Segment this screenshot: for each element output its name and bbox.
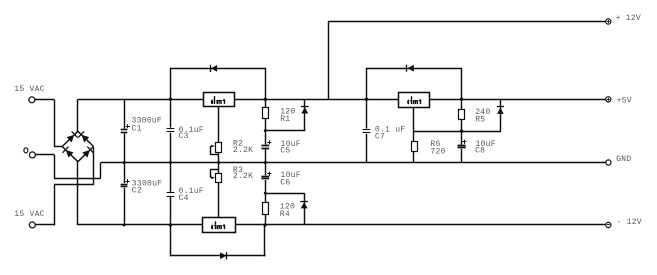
svg-text:C8: C8	[475, 147, 485, 156]
svg-text:C6: C6	[280, 179, 290, 188]
capacitor C1	[120, 124, 130, 133]
wire C6 column	[265, 163, 267, 194]
junction R1-C5-D1	[264, 129, 267, 132]
wire U2 bypass loop	[170, 225, 266, 256]
regulator U3 (LM317) box	[399, 93, 430, 108]
resistor R3 labels	[233, 166, 253, 181]
terminal +12V output	[606, 19, 611, 24]
wire GND rail	[101, 162, 606, 164]
junction positive rail / R5 / bypass	[460, 98, 463, 101]
wire U2 adjust column	[218, 163, 220, 218]
wire C3 column	[170, 99, 172, 162]
resistor R1 body	[263, 108, 269, 119]
bridge edge top-left	[62, 131, 78, 146]
wire C4 column	[170, 163, 172, 226]
resistor R2 labels	[233, 139, 253, 155]
junction negative rail / C4 / bypass	[169, 223, 172, 226]
protection diode across U2	[220, 252, 226, 259]
terminal 15 VAC top	[29, 97, 35, 103]
wire main positive rail	[78, 99, 606, 101]
wire 15 VAC bottom lead	[35, 148, 93, 226]
svg-text:C1: C1	[132, 124, 142, 133]
svg-text:R5: R5	[475, 116, 485, 125]
wire R1-D1 junction line	[265, 130, 306, 132]
diode parallel R4	[300, 202, 308, 209]
junction negative rail / C2	[123, 224, 126, 227]
capacitor C8 labels	[475, 140, 496, 156]
regulator U2 (LM337) box	[203, 218, 236, 233]
junction GND / R2-R3	[217, 161, 220, 164]
junction positive rail / C7 / bypass	[365, 98, 368, 101]
wire 0 volt lead	[35, 155, 101, 179]
capacitor C4 labels	[179, 187, 204, 203]
svg-text:R4: R4	[280, 210, 290, 219]
trimmer R3 arrow	[211, 176, 215, 179]
resistor R5 labels	[475, 108, 490, 125]
bridge edge bottom-right	[78, 147, 94, 162]
wire ADJ line section 2	[414, 131, 501, 133]
junction positive rail / C3 / bypass	[169, 98, 172, 101]
wire +12V top rail	[329, 21, 606, 23]
wire R3 wiper tap	[210, 169, 218, 177]
diode parallel R5	[497, 107, 504, 114]
capacitor C2 labels	[132, 180, 162, 196]
resistor R3 body (trimmer)	[216, 174, 222, 183]
resistor R4 labels	[280, 202, 295, 219]
capacitor C1 labels	[132, 117, 162, 134]
label 0 volt	[24, 148, 28, 153]
terminal 15 VAC bottom	[29, 222, 35, 228]
label GND	[616, 155, 631, 164]
terminal -12V output	[606, 222, 611, 227]
wire C2 column	[124, 163, 126, 226]
bridge diode D upper-right	[78, 131, 89, 142]
wire R2 wiper tap	[210, 146, 218, 155]
capacitor C7	[362, 129, 372, 134]
capacitor C2	[120, 179, 130, 188]
resistor R6 labels	[430, 140, 445, 157]
bridge diode D upper-left	[67, 131, 78, 142]
svg-text:2.2K: 2.2K	[233, 172, 253, 181]
wire C7 column	[366, 99, 368, 162]
wire U3 adjust column	[413, 107, 415, 162]
svg-text:C3: C3	[179, 132, 189, 141]
wire 15 VAC top lead	[35, 100, 62, 147]
capacitor C6 labels	[280, 171, 301, 187]
resistor R1 labels	[280, 108, 295, 125]
bridge diode D lower-right	[82, 147, 93, 158]
regulator U3 label	[408, 96, 421, 104]
wire bridge minus stub	[77, 161, 79, 225]
capacitor C3	[166, 128, 176, 133]
wire U1 adjust column	[218, 107, 220, 163]
regulator U1 label	[211, 96, 224, 104]
capacitor C6	[260, 172, 271, 180]
junction GND / C3-C4	[169, 161, 172, 164]
svg-text:15 VAC: 15 VAC	[14, 85, 44, 94]
svg-text:C7: C7	[375, 133, 385, 142]
wire U1 bypass loop	[170, 68, 266, 100]
label +5V	[617, 96, 632, 105]
terminal GND output	[606, 160, 611, 165]
trimmer R2 arrow	[211, 145, 215, 148]
wire negative rail	[77, 224, 605, 226]
protection diode across U1	[211, 65, 218, 72]
svg-text:720: 720	[430, 148, 445, 157]
svg-text:C4: C4	[179, 194, 189, 203]
resistor R5 body	[459, 110, 465, 120]
capacitor C4	[166, 192, 176, 197]
label -12V	[617, 218, 642, 227]
label 15 VAC top	[14, 85, 44, 94]
wire +12V riser	[328, 21, 330, 99]
junction negative rail / R4 / bypass	[263, 223, 266, 226]
bridge edge top-right	[78, 131, 94, 146]
capacitor C3 labels	[179, 126, 204, 141]
wire C1 column	[124, 99, 126, 162]
capacitor C5 labels	[280, 140, 301, 156]
svg-text:GND: GND	[616, 155, 631, 164]
svg-text:- 12V: - 12V	[617, 218, 642, 227]
capacitor C8	[457, 140, 467, 149]
wire C5 column	[265, 131, 267, 163]
label +12V	[616, 14, 641, 23]
protection diode across U3	[407, 65, 414, 72]
svg-text:+5V: +5V	[617, 96, 632, 105]
wire R1 column	[265, 99, 267, 130]
terminal 0 volt	[29, 152, 35, 158]
bridge diode D lower-left	[63, 147, 74, 158]
wire C6-R4-D4 junction line	[265, 193, 305, 195]
svg-text:R1: R1	[280, 115, 290, 124]
terminal +5V output	[606, 97, 611, 102]
svg-text:C2: C2	[132, 187, 142, 196]
svg-text:+ 12V: + 12V	[616, 14, 641, 23]
resistor R6 body	[412, 142, 418, 152]
wire R5 column	[461, 99, 463, 131]
wire D1 column	[304, 99, 306, 130]
label 15 VAC bottom	[14, 210, 44, 219]
resistor R2 body (trimmer)	[216, 143, 222, 153]
regulator U2 label	[212, 221, 225, 229]
junction positive rail / R1 / bypass	[264, 98, 267, 101]
junction GND / C5-C6	[264, 161, 267, 164]
diode parallel R1	[301, 107, 309, 114]
wire D4 column	[304, 193, 306, 225]
wire U3 bypass loop	[366, 68, 462, 99]
junction C6-R4-D4	[264, 192, 267, 195]
wire D5 column	[500, 99, 502, 131]
wire R4 column	[265, 193, 267, 225]
junction ADJ2 / R5 / C8	[460, 129, 463, 132]
wire bridge plus stub	[77, 99, 79, 132]
regulator U1 (LM317) box	[204, 93, 235, 107]
resistor R4 body	[263, 203, 269, 215]
bridge edge bottom-left	[62, 147, 78, 162]
svg-text:2.2K: 2.2K	[233, 146, 253, 155]
capacitor C7 labels	[375, 126, 405, 142]
junction GND / C1	[123, 161, 126, 164]
wire C8 column	[461, 131, 463, 162]
capacitor C5	[260, 140, 271, 149]
svg-text:15 VAC: 15 VAC	[14, 210, 44, 219]
svg-text:C5: C5	[280, 147, 290, 156]
